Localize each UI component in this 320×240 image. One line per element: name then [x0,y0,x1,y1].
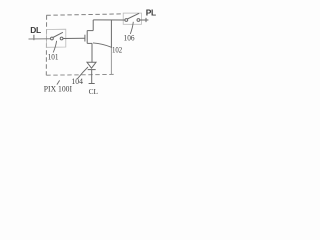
transistor 102 drain stub [87,30,93,32]
switch 101 left contact [51,37,54,40]
transistor 102 channel bar [86,31,88,44]
switch 106 lever [127,13,139,19]
leader line label 106 [130,22,133,34]
transistor 102 drain lead [92,20,94,31]
svg-text:106: 106 [124,33,136,43]
svg-text:104: 104 [72,76,84,86]
leader line label 100 [57,80,60,84]
terminal tick DL [33,35,35,40]
switch 106 left contact [125,19,128,22]
diode 104 triangle [87,62,96,68]
transistor 102 source stub [87,42,92,44]
leader line label 101 [53,41,56,53]
leader line label 104 [78,67,89,79]
svg-text:101: 101 [48,52,59,62]
leader line label 102 [93,43,112,47]
transistor 102 gate bar [84,35,86,42]
svg-text:102: 102 [112,44,122,54]
svg-text:PIX 100I: PIX 100I [44,85,72,94]
wire diode to CL [91,70,93,84]
pixel boundary dashed bottom edge [46,73,115,76]
pixel boundary dashed left edge [45,15,47,75]
svg-text:CL: CL [89,87,99,96]
switch 101 right contact [60,37,63,40]
wire switch 101 to gate of 102 [63,37,85,39]
pixel boundary dashed top edge [46,14,122,15]
switch 101 lever [53,32,63,37]
node branch vertical to bottom [110,20,112,48]
wire switch 106 to PL [140,19,149,21]
node branch vertical lower half [110,48,112,74]
switch 106 enclosure box [123,13,141,24]
diode 104 cathode bar [88,69,96,71]
wire DL input [29,38,51,40]
transistor 102 source lead [91,43,93,62]
terminal tick PL [145,18,147,22]
wire top drain to switch 106 [93,19,125,21]
svg-text:PL: PL [146,7,156,17]
terminal tick CL [89,83,95,85]
svg-text:DL: DL [30,25,41,35]
switch 106 right contact [137,19,140,22]
switch 101 enclosure box [46,29,65,47]
